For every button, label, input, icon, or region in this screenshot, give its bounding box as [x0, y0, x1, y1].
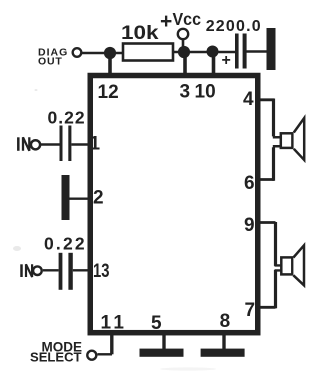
svg-text:2200.0: 2200.0	[206, 18, 262, 35]
svg-text:SELECT: SELECT	[30, 350, 82, 365]
svg-text:OUT: OUT	[38, 56, 63, 68]
svg-text:2: 2	[93, 188, 104, 209]
svg-text:3: 3	[180, 82, 191, 103]
svg-text:0.22: 0.22	[44, 234, 87, 254]
svg-text:12: 12	[98, 82, 119, 103]
svg-text:6: 6	[244, 173, 255, 194]
svg-text:10: 10	[195, 82, 216, 103]
svg-text:11: 11	[101, 313, 128, 334]
svg-text:5: 5	[151, 313, 162, 334]
svg-text:10k: 10k	[121, 23, 159, 44]
svg-text:13: 13	[93, 261, 110, 282]
svg-text:9: 9	[244, 215, 255, 236]
svg-text:8: 8	[220, 311, 231, 332]
svg-text:+: +	[222, 52, 231, 69]
svg-text:1: 1	[90, 133, 101, 154]
svg-text:0.22: 0.22	[48, 108, 86, 128]
svg-text:+: +	[160, 10, 172, 33]
svg-text:Vcc: Vcc	[173, 9, 202, 29]
svg-text:7: 7	[245, 300, 256, 321]
svg-text:4: 4	[243, 89, 254, 110]
